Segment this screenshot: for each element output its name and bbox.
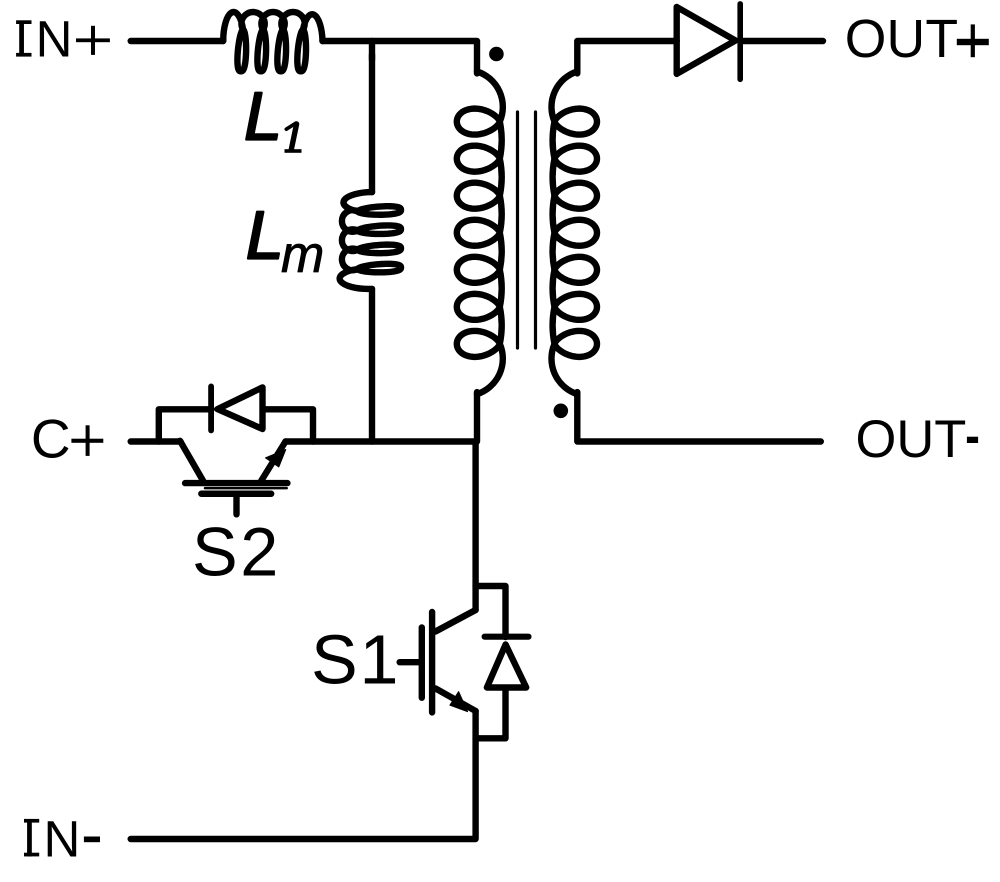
transistor S2 channel line	[205, 487, 287, 490]
transformer primary bottom lead	[474, 392, 480, 441]
label OUT+	[845, 10, 989, 69]
wire S1 collector	[472, 442, 478, 611]
transistor S1 gate lead	[400, 659, 422, 665]
wire S1 diode top corner	[476, 586, 506, 637]
transistor S2 emitter diagonal	[261, 442, 285, 481]
wire S2 diode left corner	[159, 409, 212, 441]
label S2	[192, 513, 281, 590]
wire Lm bottom	[369, 289, 375, 442]
transformer secondary bottom lead	[577, 392, 821, 441]
wire S2 emitter to junction	[286, 438, 476, 444]
svg-text:C: C	[31, 407, 71, 469]
diode S2 antiparallel cathode bar	[208, 386, 214, 430]
label Lm	[246, 197, 325, 284]
diode D1 cathode bar	[737, 4, 743, 79]
label OUT-	[856, 410, 979, 469]
label S1	[311, 620, 400, 698]
transformer core	[518, 112, 536, 348]
transformer secondary top lead	[577, 41, 676, 73]
transistor S1 emitter diagonal	[436, 688, 476, 711]
svg-text:L: L	[246, 197, 284, 273]
transistor S1 emitter arrow	[450, 692, 468, 712]
label C+	[31, 407, 103, 469]
label L1	[244, 79, 301, 155]
diode S2 antiparallel triangle	[218, 387, 263, 429]
inductor Lm	[340, 192, 401, 289]
svg-text:m: m	[281, 226, 324, 284]
polarity dot secondary	[554, 404, 569, 419]
transistor S2 collector diagonal	[180, 441, 203, 481]
inductor L1	[223, 12, 322, 71]
transistor S1 body bar	[429, 612, 435, 712]
transformer primary winding	[457, 71, 503, 394]
transistor S2 gate bar	[201, 491, 271, 497]
wire C+ lead	[131, 438, 181, 444]
svg-text:L: L	[244, 79, 282, 155]
svg-text:OUT: OUT	[845, 10, 959, 69]
wire Lm top	[369, 55, 375, 192]
svg-text:S1: S1	[311, 620, 400, 698]
wire S1 diode bottom corner	[476, 688, 506, 738]
svg-text:IN: IN	[15, 11, 80, 68]
diode S1 antiparallel triangle	[487, 645, 526, 688]
polarity dot primary	[489, 47, 504, 62]
transistor S2 emitter arrow	[266, 450, 286, 468]
transistor S2 body bar	[185, 480, 287, 486]
svg-text:OUT: OUT	[856, 410, 967, 469]
diode D1 triangle	[677, 7, 736, 74]
transformer secondary winding	[551, 71, 597, 394]
svg-text:S2: S2	[192, 513, 281, 590]
wire diode to OUT+	[740, 38, 823, 44]
wire L1 to transformer	[323, 41, 478, 73]
node junction L1/Lm	[369, 41, 375, 60]
wire IN+ lead	[131, 38, 224, 44]
wire S2 diode right corner	[263, 409, 313, 441]
wire IN- lead	[131, 711, 476, 839]
label IN+	[15, 11, 110, 68]
label IN-	[22, 810, 100, 867]
diode S1 antiparallel cathode bar	[485, 634, 529, 640]
transistor S2 gate lead	[233, 497, 239, 514]
transistor S1 gate bar	[419, 628, 425, 698]
transistor S1 collector diagonal	[436, 610, 476, 632]
